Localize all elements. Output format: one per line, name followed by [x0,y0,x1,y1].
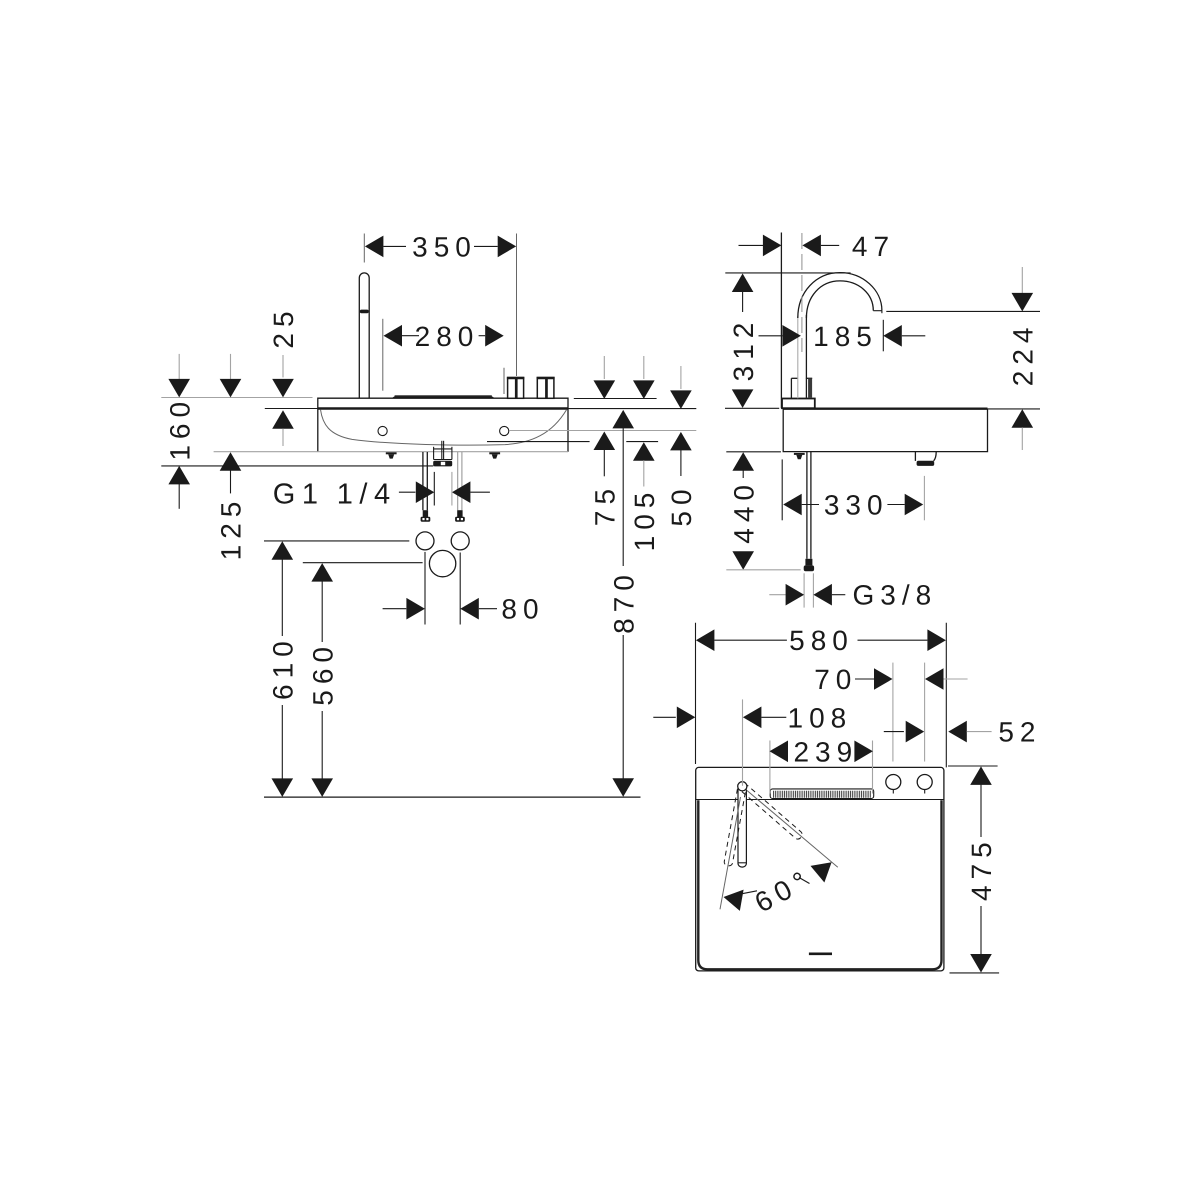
dimension 610 [264,541,409,797]
dimension 475 [948,766,999,973]
spout riser tube (side) [798,315,807,398]
angle ray left [720,797,741,909]
label G1 1/4 [273,472,490,511]
bowl wall thick outline (top) [698,800,941,969]
faucet centerline (dashed) [801,233,803,352]
mounting stud left (front) [386,452,397,458]
svg-text:239: 239 [793,736,858,767]
joystick handle bar (side, dark) [806,378,812,397]
spout outlet reference line [886,310,1040,312]
spout top reference line [725,272,850,274]
handle 2 (top) [917,775,932,794]
dimension 160 [164,354,195,509]
basin deck outline (front) [318,398,568,452]
dimension 280 [383,319,504,394]
basin outline (top) [696,767,944,971]
dimension 440 [728,452,759,570]
dimension 350 [364,231,516,376]
mounting reference line (160 bottom) [161,465,433,467]
lever straight position (top) [738,790,746,868]
dimension 185 [759,320,926,352]
svg-text:475: 475 [966,836,997,901]
apron bottom thick line [318,407,568,409]
dimension 108 [653,699,852,785]
svg-text:G1 1/4: G1 1/4 [273,479,397,511]
dimension 105 [629,356,660,551]
apron line thin extension left [265,408,318,410]
svg-text:70: 70 [814,664,857,695]
dimension 50 [666,366,697,527]
lever rotated right position (dashed, top) [742,785,804,840]
svg-text:560: 560 [307,641,338,706]
aerator strip (front) [392,395,494,398]
overflow leader line to right (gray) [509,430,696,432]
TOP VIEW GROUP [653,623,1041,973]
svg-text:580: 580 [789,625,854,656]
angle valve stud (side) [794,453,805,459]
svg-text:610: 610 [268,635,299,700]
svg-text:50: 50 [666,483,697,526]
spout arch (side) [798,273,882,318]
deck top line extended left of wall [725,407,779,409]
svg-text:224: 224 [1008,322,1039,387]
dimension 560 [303,563,423,797]
lever rotated left position (dashed, top) [724,789,746,867]
supply hose (side) [804,452,814,571]
mounting stud right (front) [489,452,500,458]
svg-text:160: 160 [164,396,195,461]
lever pivot (top) [738,782,747,791]
dimension 52 [884,717,1042,748]
supply hose left (front) [421,452,431,522]
svg-text:75: 75 [590,483,621,526]
apron line thin extension right [568,408,696,410]
wall line [780,233,782,409]
dimension 75 [590,356,621,526]
SIDE VIEW GROUP [725,231,1040,611]
dimension 80 [383,552,545,625]
svg-text:52: 52 [998,717,1041,748]
dimension 224 [1008,267,1039,450]
overflow hole right [500,426,509,435]
svg-text:25: 25 [268,305,299,348]
wall connection circle right [451,532,469,550]
cartridge collar (side) [791,378,797,398]
deck band line (top) [696,799,944,801]
drain mark (top) [809,952,832,955]
deck bottom line extended left (440 top) [726,451,781,453]
drain assembly (front) [433,441,452,467]
basin bottom line (front, light) [214,451,568,453]
faucet base plate (side) [782,399,815,409]
deck (side) [783,409,988,452]
dimension 239 [770,736,873,793]
handle 1 (front) [507,378,524,399]
dimension 125 [216,354,247,560]
svg-text:G3/8: G3/8 [853,580,938,611]
svg-text:280: 280 [415,321,480,352]
handle 2 (front) [537,378,555,399]
handle 1 (top) [886,775,901,794]
FRONT VIEW GROUP [161,231,697,797]
svg-text:185: 185 [813,321,878,352]
svg-text:312: 312 [728,317,759,382]
aerator slot (top) [770,789,874,799]
floor line (front) [264,796,641,798]
dimension 25 [268,305,299,446]
bowl inner curve (front) [321,410,567,446]
drain wall circle (large) [429,550,455,576]
label G3/8 [769,573,937,610]
supply hose right (front) [455,452,465,522]
svg-text:870: 870 [608,569,639,634]
overflow hole left [378,426,387,435]
440 bottom line (gray) [726,569,800,571]
dimension 312 [728,274,759,408]
svg-text:350: 350 [412,231,477,262]
svg-text:80: 80 [501,594,544,625]
svg-text:440: 440 [728,479,759,544]
dimension 580 [696,623,947,768]
drain stub (side) [915,452,936,466]
deck top level short line right of basin [574,398,657,400]
bowl depth level line (105 ref) [487,441,658,443]
svg-text:108: 108 [788,702,853,733]
dimension 330 [782,459,924,520]
svg-text:330: 330 [824,490,889,521]
angle annotation 60deg [722,854,839,918]
svg-text:125: 125 [216,496,247,561]
dimension 47 [739,231,896,262]
svg-text:47: 47 [852,231,895,262]
svg-text:105: 105 [629,487,660,552]
dimension 870 [608,410,639,797]
deck top level line extended left (gray) [161,397,312,399]
dimension 70 [814,663,967,762]
angle ray right [747,791,838,868]
joystick lever pin (front) [359,273,369,398]
deck top line extended right [988,408,1041,410]
wall connection circle left [416,532,434,550]
